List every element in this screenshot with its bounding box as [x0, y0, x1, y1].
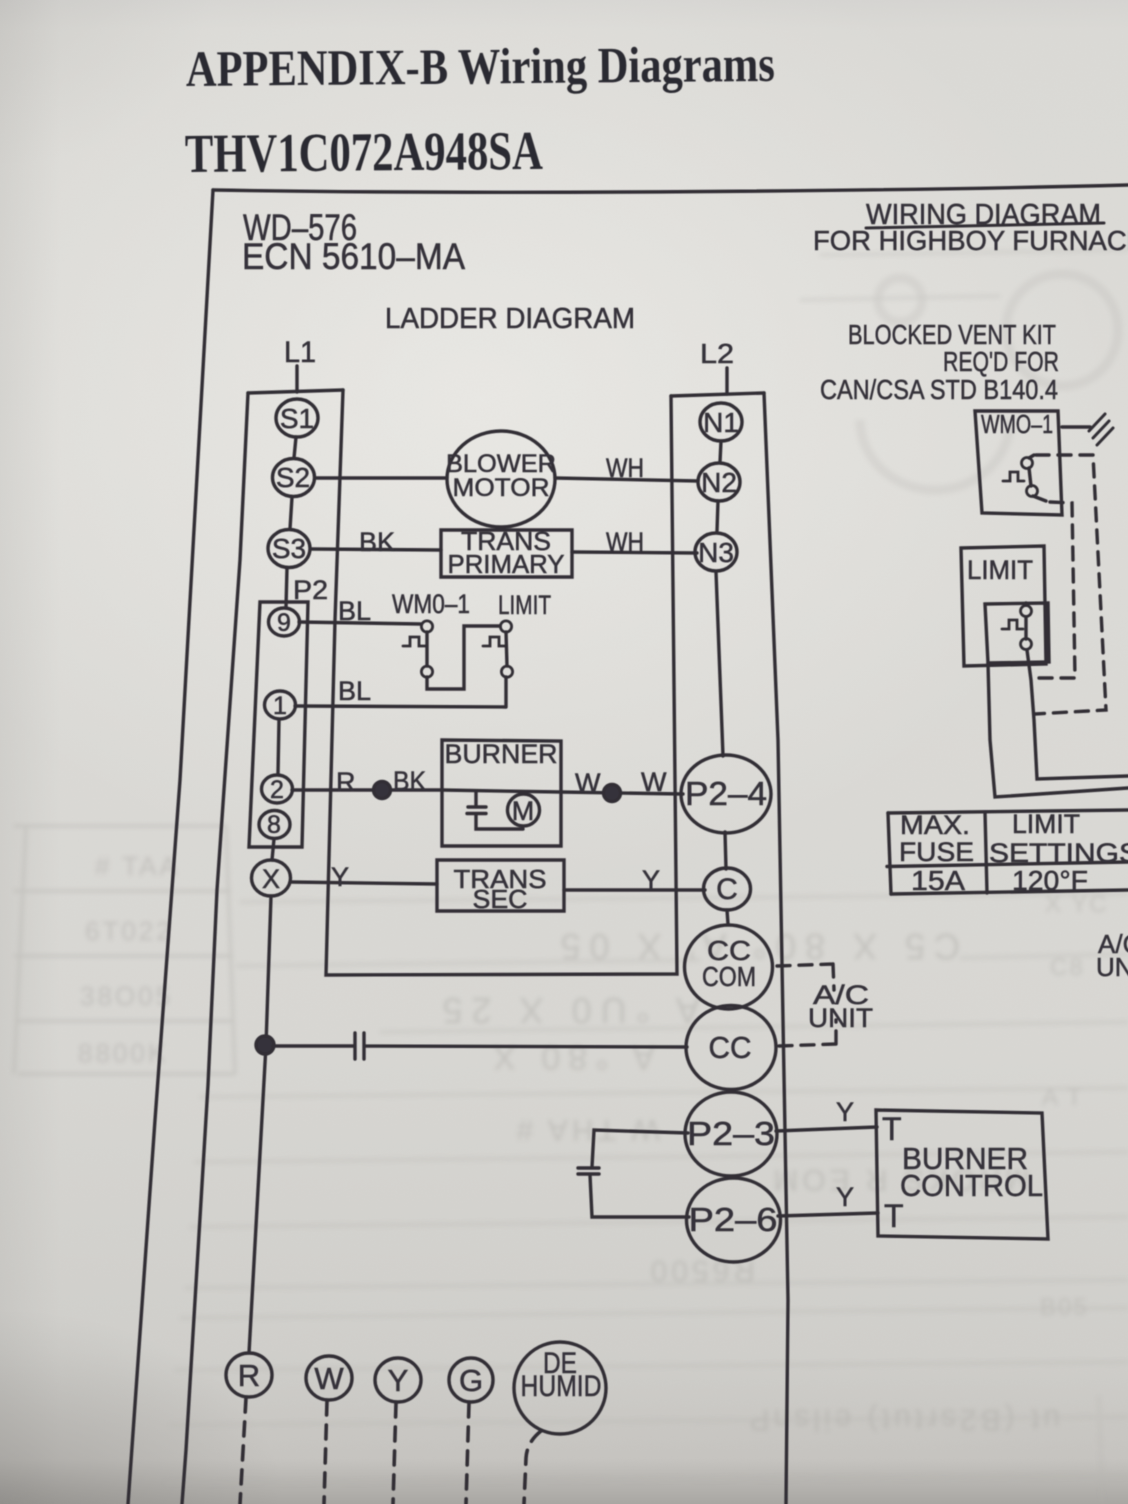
svg-text:Y: Y	[642, 865, 660, 895]
svg-text:8800K: 8800K	[78, 1038, 168, 1068]
svg-text:A °80 X: A °80 X	[485, 1038, 655, 1076]
svg-text:8: 8	[267, 811, 281, 839]
svg-text:S3: S3	[272, 533, 306, 564]
svg-text:APPENDIX-B Wiring Diagrams: APPENDIX-B Wiring Diagrams	[186, 37, 775, 98]
svg-text:Y: Y	[836, 1097, 854, 1127]
svg-text:N1: N1	[703, 407, 739, 438]
svg-text:HUMID: HUMID	[521, 1370, 602, 1403]
svg-text:1: 1	[273, 692, 287, 720]
svg-text:N3: N3	[698, 537, 734, 568]
svg-text:S2: S2	[276, 462, 310, 493]
svg-text:CONTROL: CONTROL	[900, 1168, 1043, 1203]
svg-text:MOTOR: MOTOR	[453, 474, 550, 502]
svg-text:# TAA: # TAA	[95, 851, 180, 881]
svg-text:UNIT: UNIT	[1096, 952, 1128, 982]
svg-text:COM: COM	[702, 961, 756, 992]
svg-text:M: M	[512, 796, 535, 826]
svg-text:R: R	[238, 1358, 260, 1393]
svg-text:W THA #: W THA #	[513, 1113, 660, 1146]
svg-text:Y: Y	[331, 862, 349, 892]
svg-text:PRIMARY: PRIMARY	[448, 549, 565, 579]
svg-text:CAN/CSA STD B140.4: CAN/CSA STD B140.4	[820, 374, 1058, 405]
svg-text:WH: WH	[606, 527, 644, 557]
svg-text:C: C	[716, 873, 738, 906]
svg-text:WH: WH	[606, 453, 644, 483]
svg-text:CC: CC	[709, 1030, 752, 1065]
svg-text:A T: A T	[1042, 1084, 1084, 1111]
svg-text:LIMIT: LIMIT	[498, 590, 551, 620]
svg-text:BURNER: BURNER	[445, 739, 558, 769]
svg-text:SEC: SEC	[473, 884, 528, 914]
svg-text:Y: Y	[388, 1363, 409, 1398]
svg-text:FOR HIGHBOY FURNACE: FOR HIGHBOY FURNACE	[813, 225, 1128, 256]
svg-text:T: T	[882, 1111, 902, 1147]
svg-text:UNIT: UNIT	[808, 1003, 873, 1033]
svg-text:R: R	[336, 767, 356, 797]
svg-text:38O05: 38O05	[80, 981, 173, 1011]
svg-text:S1: S1	[280, 403, 314, 434]
svg-text:BL: BL	[338, 676, 371, 706]
svg-text:W: W	[641, 767, 667, 797]
svg-text:W: W	[575, 768, 601, 798]
svg-text:REQ'D FOR: REQ'D FOR	[943, 346, 1059, 377]
svg-text:BL: BL	[338, 596, 371, 626]
svg-text:A °U0 X 25: A °U0 X 25	[433, 990, 700, 1031]
svg-text:N2: N2	[701, 467, 737, 498]
svg-text:WMO–1: WMO–1	[981, 409, 1053, 439]
svg-text:L2: L2	[700, 338, 734, 369]
svg-text:BK: BK	[393, 766, 426, 796]
svg-text:R6500: R6500	[647, 1254, 755, 1287]
svg-text:P2–4: P2–4	[685, 775, 767, 812]
svg-text:W: W	[314, 1361, 344, 1396]
svg-text:L1: L1	[284, 336, 316, 369]
svg-text:LADDER DIAGRAM: LADDER DIAGRAM	[385, 303, 635, 335]
svg-text:6T022: 6T022	[85, 916, 174, 946]
svg-text:MAX.: MAX.	[900, 810, 970, 840]
svg-text:SETTINGS: SETTINGS	[989, 838, 1128, 868]
svg-text:LIMIT: LIMIT	[1012, 809, 1080, 839]
svg-text:ECN 5610–MA: ECN 5610–MA	[242, 236, 465, 277]
svg-text:G: G	[459, 1363, 483, 1398]
svg-text:B05: B05	[1040, 1294, 1089, 1321]
svg-text:15A: 15A	[911, 865, 965, 896]
svg-text:120°F: 120°F	[1012, 865, 1088, 896]
svg-text:FUSE: FUSE	[899, 837, 974, 867]
svg-text:Y: Y	[836, 1182, 854, 1212]
svg-text:THV1C072A948SA: THV1C072A948SA	[185, 120, 544, 184]
svg-text:ut (B2srtut) eilsnP: ut (B2srtut) eilsnP	[746, 1403, 1060, 1436]
svg-text:C8: C8	[1050, 954, 1085, 981]
svg-text:T: T	[884, 1198, 904, 1234]
svg-text:LIMIT: LIMIT	[967, 555, 1033, 585]
svg-text:P2: P2	[293, 575, 328, 605]
svg-text:P2–3: P2–3	[687, 1115, 775, 1152]
svg-text:2: 2	[270, 776, 284, 804]
svg-text:WM0–1: WM0–1	[392, 589, 470, 619]
svg-text:BK: BK	[359, 527, 395, 557]
svg-text:9: 9	[277, 609, 291, 637]
svg-text:P2–6: P2–6	[689, 1201, 778, 1238]
svg-text:X: X	[262, 864, 280, 894]
